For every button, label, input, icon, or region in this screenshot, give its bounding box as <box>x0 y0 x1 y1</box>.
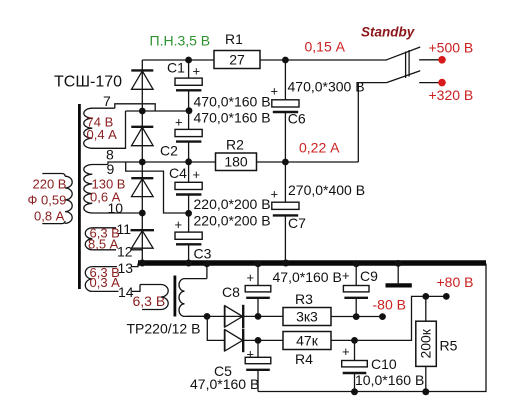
svg-text:+: + <box>193 64 201 79</box>
svg-text:+: + <box>193 167 201 182</box>
bottom rail <box>258 264 486 392</box>
svg-text:0,3 А: 0,3 А <box>90 275 121 290</box>
terminal +500 В <box>438 56 446 64</box>
svg-text:+: + <box>175 217 183 232</box>
wire TR220sec-top to bus <box>206 264 208 279</box>
svg-text:C2: C2 <box>160 143 178 159</box>
svg-text:R2: R2 <box>226 137 244 153</box>
svg-text:C6: C6 <box>288 111 306 127</box>
wire pin10 <box>92 212 142 214</box>
wire w1-bottom to node111 <box>92 111 126 148</box>
diode D2 <box>131 127 153 146</box>
svg-text:ТСШ-170: ТСШ-170 <box>54 74 122 91</box>
svg-text:C10: C10 <box>371 356 397 372</box>
svg-text:220,0*200 В: 220,0*200 В <box>194 196 271 212</box>
svg-text:+320 В: +320 В <box>429 87 474 103</box>
resistor R1 <box>214 31 260 69</box>
wire nodeA down to D6 <box>207 316 224 340</box>
svg-text:47,0*160 В: 47,0*160 В <box>190 376 259 392</box>
wire node111 <box>126 110 190 112</box>
svg-text:0,4 А: 0,4 А <box>87 127 118 142</box>
node C4-C3 <box>185 210 192 217</box>
svg-text:C9: C9 <box>360 268 378 284</box>
wire pin9 path <box>126 162 189 213</box>
T1 primary winding <box>42 174 72 224</box>
svg-text:R4: R4 <box>295 351 313 367</box>
terminal +320 В <box>438 79 446 87</box>
svg-text:47к: 47к <box>296 333 319 349</box>
svg-text:12: 12 <box>117 244 133 260</box>
terminal +80 В <box>443 293 450 300</box>
svg-text:27: 27 <box>229 52 245 68</box>
capacitor C10 <box>342 340 397 391</box>
node D2-junction <box>139 159 146 166</box>
svg-text:8,5 А: 8,5 А <box>88 237 119 252</box>
svg-text:+: + <box>175 115 183 130</box>
node C1-C2 <box>186 107 193 114</box>
node bus-diode column <box>139 260 146 267</box>
svg-text:+: + <box>271 187 279 202</box>
capacitor C8 <box>222 264 271 317</box>
node rail2-C7 <box>282 159 289 166</box>
svg-text:0,22 А: 0,22 А <box>299 140 340 156</box>
svg-text:0,6 А: 0,6 А <box>90 189 121 204</box>
node bus-C3 <box>185 260 192 267</box>
svg-text:10,0*160 В: 10,0*160 В <box>355 372 424 388</box>
diode D6 <box>224 329 243 352</box>
svg-text:C7: C7 <box>288 215 306 231</box>
wire R3 to -80 <box>331 316 383 318</box>
capacitor C3 <box>175 213 212 263</box>
node A sec-bottom <box>204 313 211 320</box>
wire R4 to +80 path <box>331 296 446 340</box>
bus (thick zero rail) <box>138 260 486 266</box>
node C C5-top <box>255 337 262 344</box>
svg-text:0,8 А: 0,8 А <box>34 209 65 224</box>
ground bar <box>397 263 399 283</box>
svg-text:П.Н.3,5 В: П.Н.3,5 В <box>150 32 211 48</box>
node bus-C7col <box>282 260 289 267</box>
node bus-TR220 <box>203 260 210 267</box>
resistor R5 <box>416 296 458 391</box>
svg-text:200к: 200к <box>418 328 434 358</box>
svg-text:Standby: Standby <box>361 25 416 40</box>
node rail1-C1 <box>185 57 192 64</box>
wire feed to switch pole2 <box>358 83 386 162</box>
switch S1 Standby <box>361 25 439 83</box>
svg-text:13: 13 <box>118 260 134 276</box>
node C10-top <box>351 337 358 344</box>
capacitor C5 <box>214 340 271 391</box>
wire rail2 <box>108 162 216 165</box>
svg-text:470,0*160 В: 470,0*160 В <box>194 110 271 126</box>
T1 winding W2 130В <box>84 165 108 214</box>
wire pin7 step <box>115 104 155 111</box>
svg-text:47,0*160 В: 47,0*160 В <box>273 269 342 285</box>
svg-text:470,0*300 В: 470,0*300 В <box>288 79 365 95</box>
diode column line <box>141 60 143 263</box>
T1 winding W1 74В <box>84 108 115 148</box>
wire rail1 left <box>142 59 214 61</box>
diode D1 <box>131 70 153 89</box>
node bottomrail-R5 <box>422 388 429 395</box>
svg-text:R3: R3 <box>295 291 313 307</box>
wire rail1 right <box>260 59 387 61</box>
node bottomrail-C10 <box>351 388 358 395</box>
diode D3 <box>131 178 153 196</box>
capacitor C6 <box>271 60 306 162</box>
capacitor C4 <box>169 162 202 213</box>
transformer T1 core <box>78 104 81 289</box>
diode D5 <box>224 305 243 328</box>
svg-text:+: + <box>247 270 255 285</box>
wire +row D6 to R4 <box>243 339 283 341</box>
svg-text:+: + <box>342 268 350 283</box>
svg-text:220 В: 220 В <box>33 177 67 192</box>
T1 winding W4 6,3В <box>85 264 140 292</box>
svg-text:6,3 В: 6,3 В <box>133 293 166 309</box>
node bus-gnd <box>395 260 402 267</box>
svg-text:C1: C1 <box>167 60 185 76</box>
TR220 core <box>173 276 176 317</box>
capacitor C7 <box>271 162 307 263</box>
capacitor C2 <box>160 111 202 162</box>
svg-text:0,15 А: 0,15 А <box>305 39 346 55</box>
svg-text:ТР220/12 В: ТР220/12 В <box>127 321 201 337</box>
svg-text:220,0*200 В: 220,0*200 В <box>194 213 271 229</box>
svg-text:+500 В: +500 В <box>429 40 474 56</box>
terminal -80 В <box>379 313 386 320</box>
svg-text:180: 180 <box>224 154 248 170</box>
resistor R3 <box>283 291 331 326</box>
TR220 secondary <box>179 279 207 317</box>
svg-text:R1: R1 <box>225 31 243 47</box>
svg-text:470,0*160 В: 470,0*160 В <box>194 93 271 109</box>
node bus-C9 <box>353 260 360 267</box>
node C9-R3 <box>353 313 360 320</box>
svg-text:C4: C4 <box>169 165 187 181</box>
node C2-C4 <box>185 158 192 165</box>
svg-text:C3: C3 <box>194 246 212 262</box>
T1 winding W3 6,3В <box>85 228 142 250</box>
svg-text:+80 В: +80 В <box>437 274 474 290</box>
node D1-junction <box>139 108 146 115</box>
svg-text:7: 7 <box>103 93 111 109</box>
node rail1-C6 <box>282 57 289 64</box>
svg-text:+: + <box>271 84 279 99</box>
svg-text:-80 В: -80 В <box>373 297 406 313</box>
TR220 primary <box>140 285 168 310</box>
wire -80 row <box>186 315 283 317</box>
capacitor C1 <box>167 60 202 111</box>
resistor R2 <box>216 137 257 171</box>
svg-text:3к3: 3к3 <box>296 309 318 325</box>
svg-text:9: 9 <box>107 161 115 177</box>
svg-text:Ф 0,59: Ф 0,59 <box>28 193 67 208</box>
resistor R4 <box>283 332 331 368</box>
node R5-top <box>422 293 429 300</box>
node D3-junction <box>139 210 146 217</box>
svg-text:+: + <box>342 344 350 359</box>
svg-text:R5: R5 <box>440 338 458 354</box>
diode D4 <box>131 230 155 248</box>
svg-text:14: 14 <box>118 284 134 300</box>
capacitor C9 <box>342 264 378 317</box>
svg-text:270,0*400 В: 270,0*400 В <box>288 182 365 198</box>
svg-text:C8: C8 <box>222 284 240 300</box>
node bus-C8 <box>255 260 262 267</box>
node B C8-bottom <box>255 313 262 320</box>
